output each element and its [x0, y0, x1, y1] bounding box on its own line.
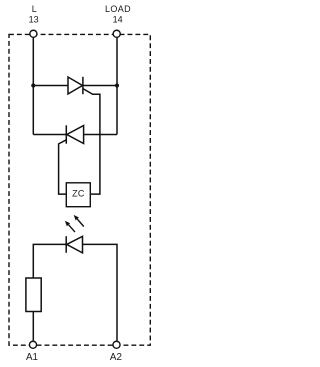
svg-text:A1: A1 [26, 352, 38, 363]
wire SCR1 cathode to right rail [83, 85, 117, 87]
junction dot left [31, 83, 35, 87]
terminal L/13 [30, 30, 37, 37]
svg-text:A2: A2 [110, 352, 122, 363]
svg-text:L: L [32, 4, 37, 14]
svg-text:LOAD: LOAD [105, 4, 131, 14]
wire right rail from LOAD terminal down [116, 37, 118, 134]
terminal A2 [113, 341, 120, 348]
wire resistor to A1 terminal [32, 312, 34, 341]
wire SCR2 gate down to ZC box left side [59, 140, 67, 194]
terminal A1 [29, 341, 36, 348]
dashed enclosure border [9, 34, 150, 345]
zero-cross detector box ZC [66, 183, 90, 207]
svg-text:14: 14 [113, 15, 123, 25]
wire left rail from L terminal down [32, 37, 34, 134]
terminal LOAD/14 [113, 30, 120, 37]
thyristor SCR1 (conducts left-to-right) [68, 77, 83, 94]
thyristor SCR2 (conducts right-to-left) [66, 125, 83, 143]
wire SCR2 left (cathode side) [33, 134, 66, 136]
wire SCR1 gate down to ZC box right side [83, 89, 100, 195]
LED D1 [66, 236, 82, 253]
wire SCR1 anode branch [33, 85, 68, 87]
svg-text:ZC: ZC [72, 189, 85, 199]
resistor R1 [26, 278, 41, 312]
wire SCR2 right (anode side) [84, 134, 117, 136]
wire LED anode to A2 rail [83, 244, 118, 340]
junction dot right [115, 83, 119, 87]
wire LED cathode to resistor [33, 244, 66, 278]
LED emission arrow 2 [74, 215, 84, 227]
svg-text:13: 13 [29, 15, 39, 25]
LED emission arrow 1 [65, 221, 75, 232]
